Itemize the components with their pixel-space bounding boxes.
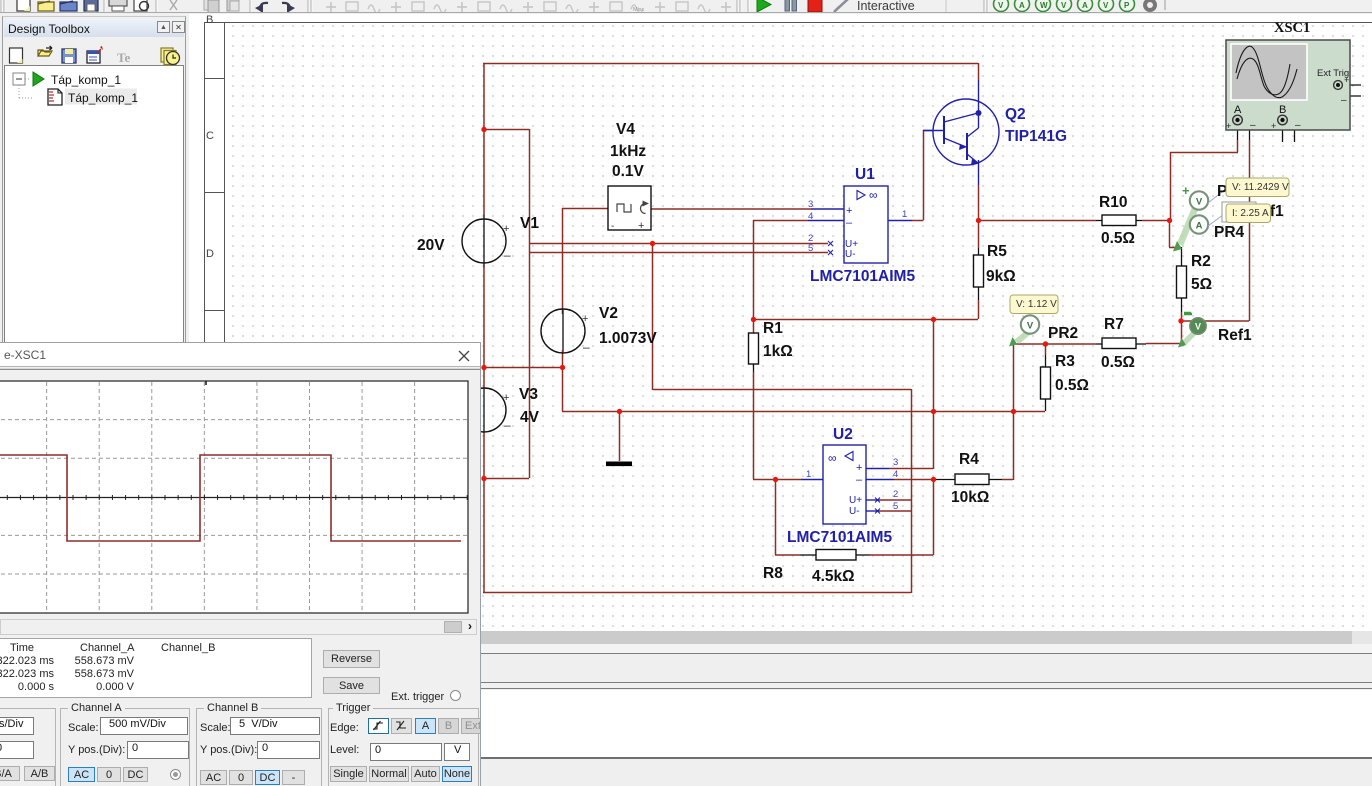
svg-text:A: A: [1082, 1, 1088, 10]
svg-text:–: –: [1250, 120, 1256, 131]
svg-text:0.5Ω: 0.5Ω: [1101, 354, 1135, 371]
svg-text:+: +: [856, 462, 862, 474]
svg-text:XSC1: XSC1: [1274, 20, 1310, 36]
svg-text:-: -: [611, 221, 614, 232]
svg-text:+: +: [1344, 75, 1349, 85]
svg-text:V: V: [1027, 321, 1034, 332]
svg-text:+: +: [503, 223, 509, 235]
svg-text:Táp_komp_1: Táp_komp_1: [51, 73, 121, 87]
svg-text:A: A: [1019, 1, 1025, 10]
svg-text:4: 4: [893, 469, 898, 480]
svg-text:∞: ∞: [828, 451, 837, 465]
svg-text:+: +: [582, 313, 588, 325]
svg-text:Táp_komp_1: Táp_komp_1: [68, 91, 138, 105]
svg-text:+: +: [1271, 121, 1276, 131]
svg-text:A: A: [1234, 104, 1242, 116]
svg-text:9kΩ: 9kΩ: [986, 268, 1016, 285]
svg-text:R7: R7: [1104, 316, 1124, 333]
svg-text:U-: U-: [849, 506, 860, 517]
svg-text:4.5kΩ: 4.5kΩ: [812, 568, 855, 585]
svg-text:V: V: [1196, 197, 1203, 208]
svg-text:R4: R4: [959, 451, 979, 468]
svg-text:R10: R10: [1099, 194, 1127, 211]
svg-text:1kΩ: 1kΩ: [763, 343, 793, 360]
svg-text:V: V: [1061, 1, 1067, 10]
svg-text:–: –: [846, 217, 853, 229]
svg-text:U1: U1: [855, 166, 875, 183]
svg-text:+: +: [638, 220, 644, 232]
svg-text:V: 11.2429 V: V: 11.2429 V: [1232, 182, 1289, 193]
svg-text:U+: U+: [849, 495, 862, 506]
svg-text:Te: Te: [117, 50, 130, 65]
svg-text:V2: V2: [599, 305, 618, 322]
svg-text:U2: U2: [833, 426, 853, 443]
svg-text:V1: V1: [520, 215, 539, 232]
svg-text:R1: R1: [763, 320, 783, 337]
svg-text:V: V: [1195, 322, 1201, 332]
svg-text:5: 5: [808, 243, 813, 254]
svg-text:0.5Ω: 0.5Ω: [1055, 377, 1089, 394]
svg-text:5: 5: [893, 501, 898, 512]
svg-text:–: –: [1295, 120, 1301, 131]
svg-text:+: +: [846, 205, 852, 217]
svg-text:1.0073V: 1.0073V: [599, 330, 657, 347]
svg-text:0.1V: 0.1V: [612, 163, 645, 180]
svg-text:3: 3: [893, 457, 898, 468]
svg-text:PR4: PR4: [1214, 224, 1245, 241]
svg-text:V3: V3: [519, 386, 538, 403]
svg-text:V: V: [998, 1, 1004, 10]
svg-text:1kHz: 1kHz: [610, 143, 646, 160]
svg-text:1: 1: [902, 209, 907, 220]
svg-text:R2: R2: [1191, 253, 1211, 270]
svg-text:–: –: [1341, 95, 1347, 106]
svg-text:–: –: [856, 474, 863, 486]
svg-text:5Ω: 5Ω: [1191, 276, 1212, 293]
svg-text:10kΩ: 10kΩ: [951, 489, 989, 506]
svg-text:U-: U-: [845, 249, 856, 260]
svg-text:Ref1: Ref1: [1218, 327, 1252, 344]
svg-text:R5: R5: [987, 243, 1007, 260]
svg-text:V: V: [1103, 1, 1109, 10]
svg-text:PR2: PR2: [1048, 325, 1078, 342]
svg-text:+: +: [1182, 183, 1190, 198]
svg-text:1: 1: [806, 469, 811, 480]
svg-text:R3: R3: [1055, 353, 1075, 370]
svg-text:–: –: [583, 340, 590, 354]
svg-text:W: W: [1040, 1, 1048, 10]
svg-text:Interactive: Interactive: [857, 0, 915, 13]
svg-text:4: 4: [808, 211, 813, 222]
svg-text:20V: 20V: [417, 237, 445, 254]
svg-text:A: A: [1196, 221, 1203, 232]
svg-text:+: +: [1226, 121, 1231, 131]
svg-text:3: 3: [808, 199, 813, 210]
svg-text:B: B: [1279, 104, 1286, 116]
svg-text:I: 2.25 A: I: 2.25 A: [1232, 208, 1269, 219]
svg-text:P: P: [1124, 1, 1130, 10]
svg-text:–: –: [504, 418, 511, 432]
svg-text:R8: R8: [763, 565, 783, 582]
svg-text:–: –: [504, 248, 511, 262]
svg-text:TIP141G: TIP141G: [1005, 128, 1067, 145]
svg-text:+: +: [503, 392, 509, 404]
svg-text:2: 2: [893, 489, 898, 500]
svg-text:V4: V4: [616, 121, 635, 138]
svg-text:LMC7101AIM5: LMC7101AIM5: [810, 268, 915, 285]
svg-text:∞: ∞: [869, 188, 878, 202]
svg-text:LMC7101AIM5: LMC7101AIM5: [787, 529, 892, 546]
svg-text:V: 1.12 V: V: 1.12 V: [1016, 299, 1057, 310]
svg-text:0.5Ω: 0.5Ω: [1101, 230, 1135, 247]
svg-text:Misc: Misc: [633, 7, 645, 13]
svg-text:Q2: Q2: [1005, 106, 1026, 123]
svg-text:4V: 4V: [520, 409, 540, 426]
